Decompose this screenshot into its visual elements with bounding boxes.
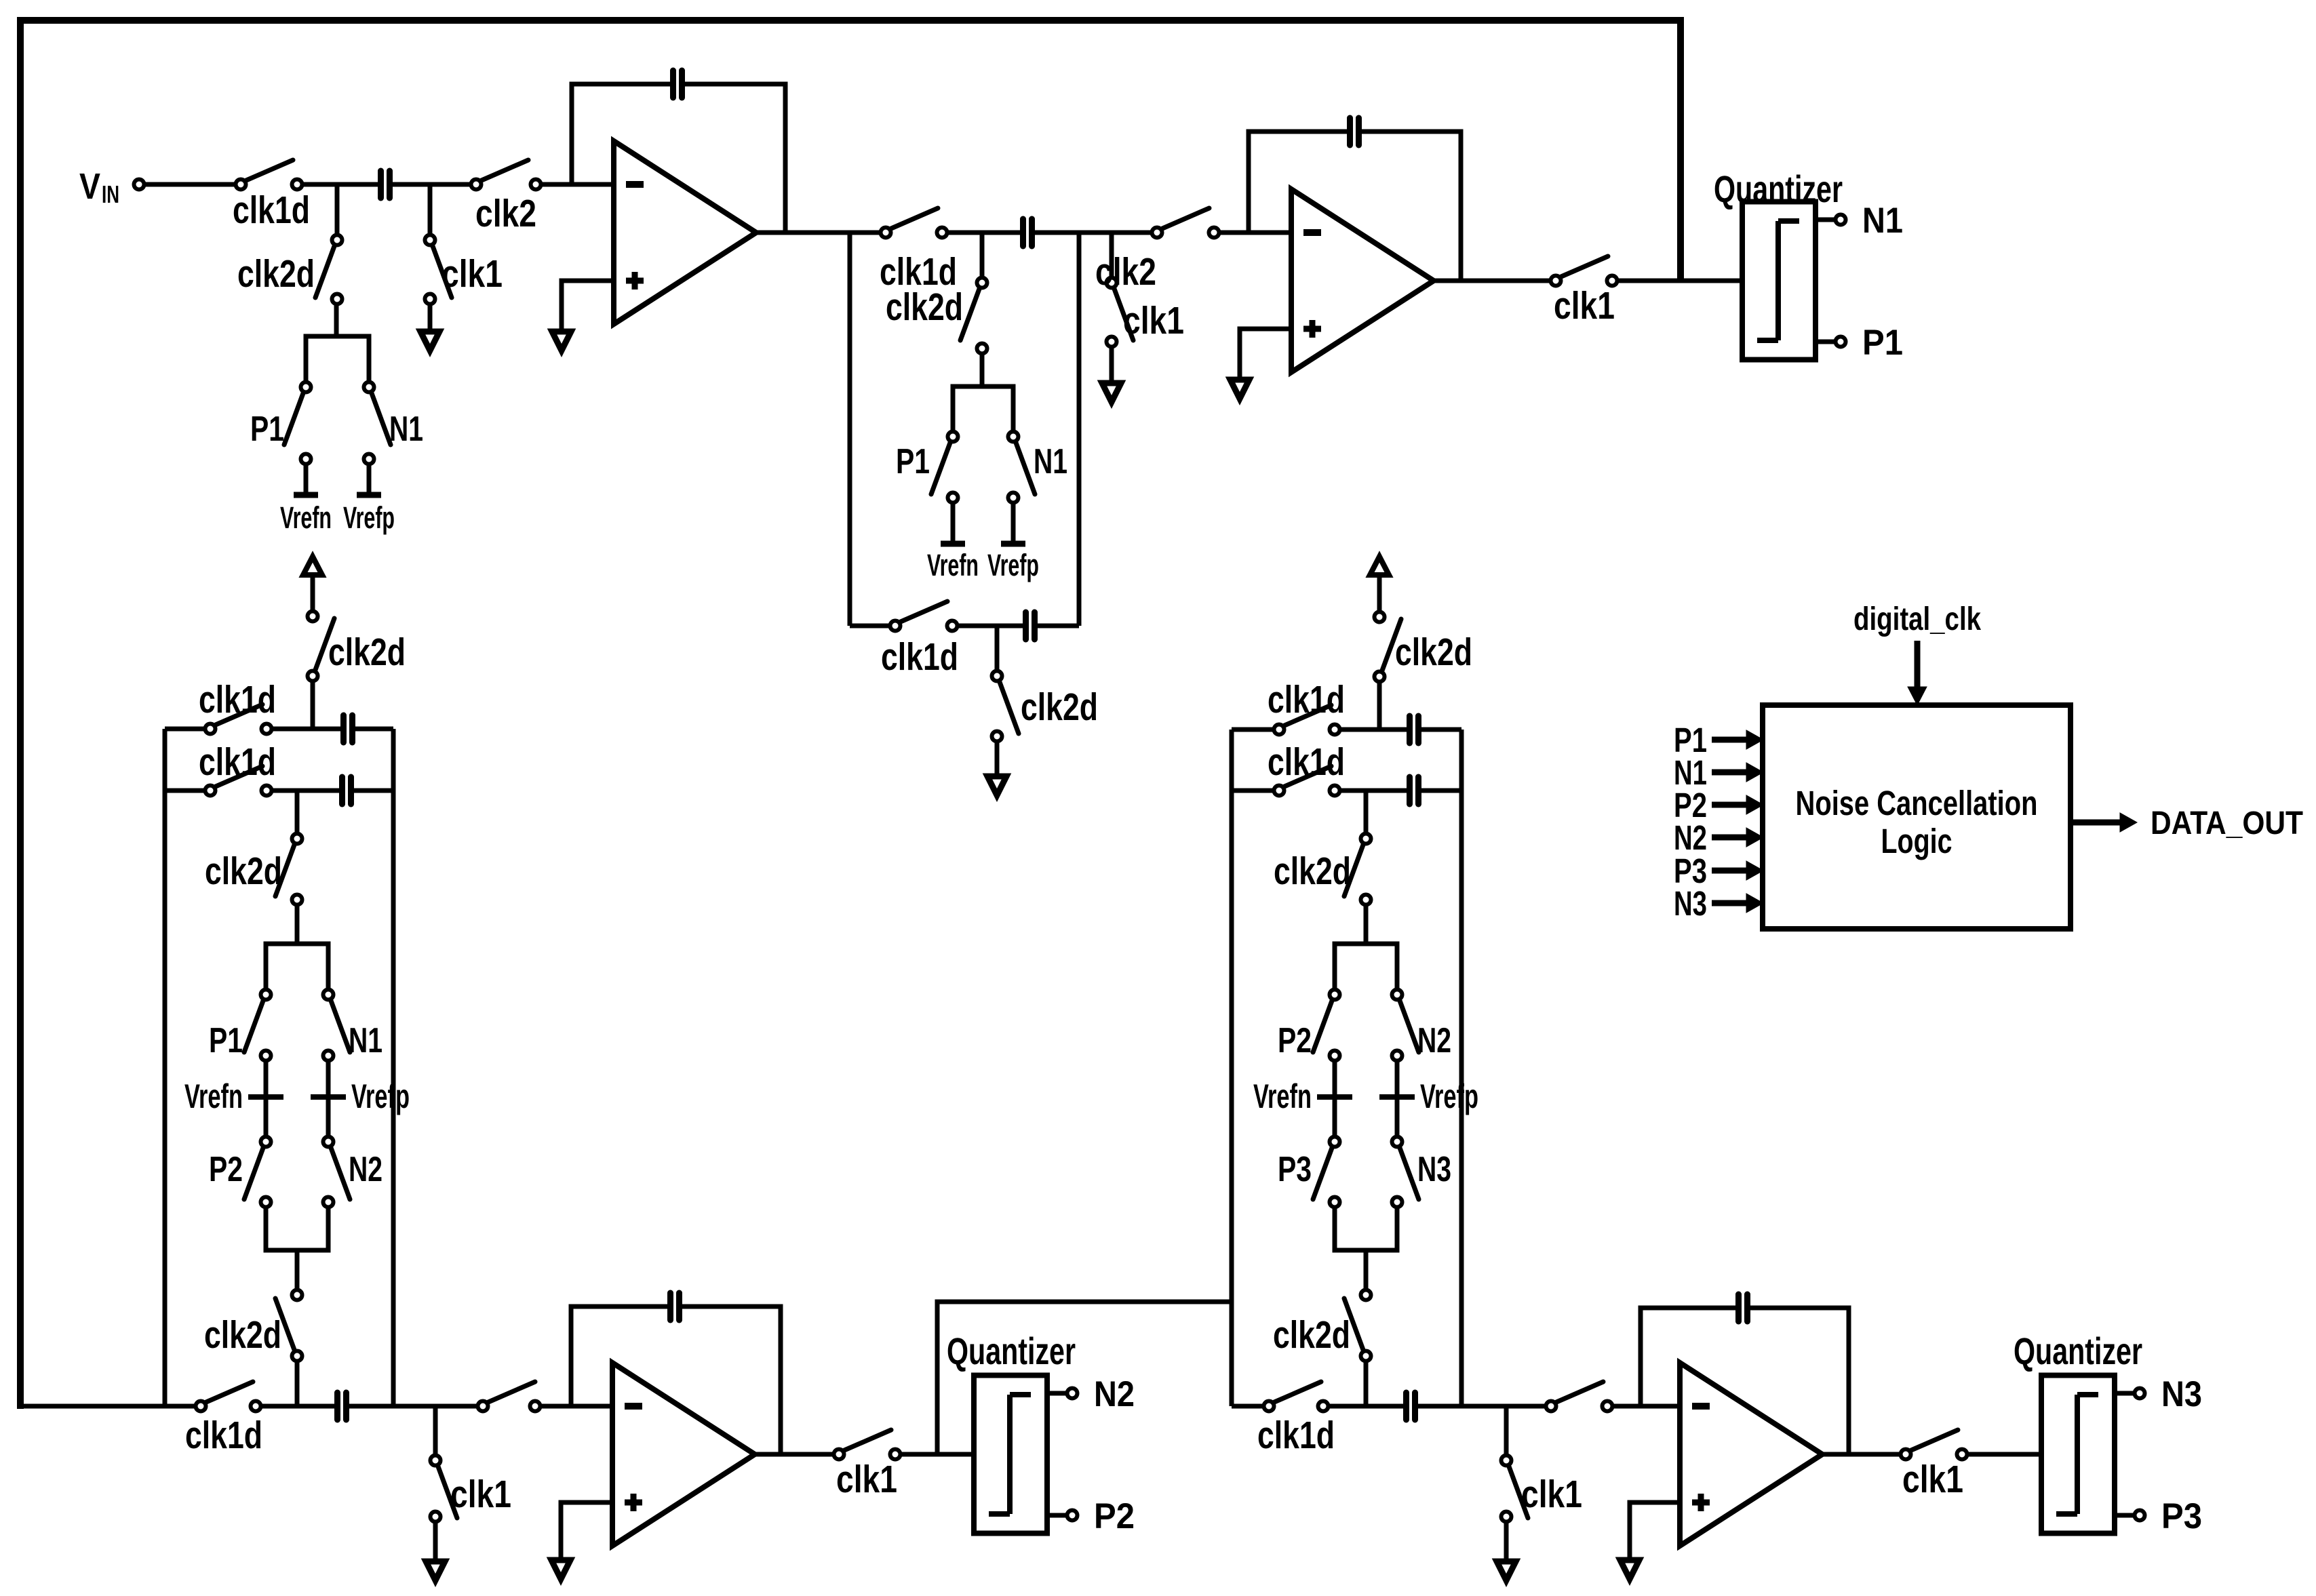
ground (stage2 clk1) xyxy=(1102,347,1121,402)
wire clk1 to quantizer3 xyxy=(1968,1452,2041,1457)
svg-text:IN: IN xyxy=(102,180,119,208)
wire clk1d to sampling cap xyxy=(302,182,378,187)
switch clk2d (stage1 DAC branch) xyxy=(237,235,342,304)
node N1 output xyxy=(1862,201,1903,241)
wire clk2 to op-amp U2 minus input xyxy=(1219,231,1291,235)
svg-text:clk1d: clk1d xyxy=(1268,678,1345,721)
svg-text:Quantizer: Quantizer xyxy=(1714,167,1843,210)
svg-text:clk1d: clk1d xyxy=(1268,740,1345,784)
switch P1 (stage1 DAC) xyxy=(250,382,311,464)
node N3 output xyxy=(2161,1374,2202,1414)
ground (stage4 clk1) xyxy=(1497,1522,1516,1580)
wire to op-amp U3 minus input xyxy=(541,1404,612,1409)
op-amp U1 (first integrator) xyxy=(614,141,756,324)
capacitor Cf4 (stage4 integrator) xyxy=(1739,1294,1748,1321)
quantizer Q3 xyxy=(2014,1330,2145,1534)
wire clk1d to stage4 cap xyxy=(1329,1404,1403,1409)
switch N1 (stage1 DAC) xyxy=(364,382,424,464)
capacitor Cf3 feedback wire xyxy=(571,1306,781,1454)
svg-text:P2: P2 xyxy=(1278,1021,1312,1060)
switch clk1 (stage1 cap reset) xyxy=(425,235,503,304)
node N3 input to NCL xyxy=(1674,884,1763,923)
svg-text:P3: P3 xyxy=(2161,1496,2202,1536)
svg-text:P2: P2 xyxy=(1094,1496,1135,1536)
wire clk2d to stage4 input wire xyxy=(1364,1361,1369,1406)
svg-text:clk1d: clk1d xyxy=(881,635,958,679)
capacitor C31 (stage3 box wire1) xyxy=(344,715,353,742)
switch P1 (stage3 ladder) xyxy=(209,990,271,1061)
switch clk1d (stage3 box wire1) xyxy=(199,678,276,734)
svg-text:clk1: clk1 xyxy=(1902,1458,1963,1501)
svg-text:Logic: Logic xyxy=(1881,822,1952,860)
svg-text:clk2: clk2 xyxy=(1095,250,1156,294)
wire clk2d up to arrow xyxy=(311,574,315,611)
switch clk2 (stage4 integrate, unlabeled) xyxy=(1546,1382,1613,1412)
node B2 junction clk1 ground branch xyxy=(1110,233,1114,278)
switch N3 (stage4 ladder) xyxy=(1392,1137,1452,1208)
wire clk2d up to arrow (stage4) xyxy=(1377,574,1382,612)
node VIN input terminal xyxy=(79,166,144,208)
switch clk2d (stage2 bottom reset) xyxy=(992,671,1099,742)
node P2 output xyxy=(1094,1496,1135,1536)
switch clk1 (stage4 cap reset) xyxy=(1502,1456,1583,1522)
op-amp U3 (third integrator) xyxy=(612,1363,755,1546)
switch clk2d (stage4 ladder to input) xyxy=(1273,1290,1371,1361)
node N2 output xyxy=(1094,1374,1135,1414)
svg-text:Vrefp: Vrefp xyxy=(343,500,395,535)
node Vrefn crossbar (stage4) xyxy=(1253,1077,1352,1115)
svg-text:clk2d: clk2d xyxy=(1273,1313,1350,1357)
wire1 to cap (stage4) xyxy=(1341,727,1407,732)
switch clk1 (quantizer3 sample) xyxy=(1901,1430,1967,1501)
svg-text:clk2d: clk2d xyxy=(1021,685,1098,729)
svg-text:clk2d: clk2d xyxy=(237,252,315,296)
node DATA_OUT output xyxy=(2070,805,2303,841)
switch N1 (stage3 ladder) xyxy=(323,990,383,1061)
switch clk1d (stage2 bottom) xyxy=(881,601,958,679)
svg-text:N2: N2 xyxy=(1094,1374,1135,1414)
svg-text:clk1: clk1 xyxy=(1554,284,1615,327)
svg-text:digital_clk: digital_clk xyxy=(1853,601,1981,637)
svg-text:P1: P1 xyxy=(1862,323,1903,363)
wire bottom cap to right rail xyxy=(1037,624,1079,629)
wire cap to clk2 (stage2) xyxy=(1035,231,1152,235)
switch clk1d (stage4 box wire2) xyxy=(1268,740,1345,796)
switch clk1d (stage1 input) xyxy=(233,160,310,232)
wire clk2 to op-amp U1 minus input xyxy=(541,182,614,187)
capacitor Cb2 (stage2 bottom) xyxy=(1026,612,1035,639)
wire stage3 box left rail xyxy=(163,729,168,1406)
wire2 cap to right rail xyxy=(354,789,393,793)
wire cap to clk2 xyxy=(392,182,471,187)
node Vrefn terminal (stage1) xyxy=(280,465,332,535)
svg-text:N3: N3 xyxy=(1417,1150,1451,1189)
wire wire2 junction down to clk2d xyxy=(295,791,300,834)
switch clk2d (stage2 DAC branch) xyxy=(886,278,987,354)
node digital_clk input xyxy=(1853,601,1981,705)
ground (U1 plus input) xyxy=(552,332,571,351)
svg-text:N1: N1 xyxy=(1034,442,1067,481)
wire U1 plus input to ground xyxy=(562,281,614,332)
quantizer Q2 xyxy=(947,1330,1078,1534)
node Vrefn terminal (stage2) xyxy=(927,504,979,582)
capacitor C41 (stage4 box wire1) xyxy=(1410,716,1419,743)
wire1 cap to right rail xyxy=(355,727,393,732)
wire stage3 input from left border xyxy=(20,1404,195,1409)
ground (U3 plus input) xyxy=(551,1560,570,1579)
svg-text:P1: P1 xyxy=(209,1021,243,1060)
wire clk1d to stage2 cap xyxy=(947,231,1020,235)
wire P1 to P2 with Vrefn tap xyxy=(264,1062,269,1136)
wire U4 output to clk1 xyxy=(1821,1452,1900,1457)
svg-text:clk1d: clk1d xyxy=(199,740,276,784)
svg-text:Quantizer: Quantizer xyxy=(2014,1330,2142,1372)
switch P2 (stage4 ladder) xyxy=(1278,990,1340,1061)
svg-text:Quantizer: Quantizer xyxy=(947,1330,1076,1372)
wire stage2 box right rail xyxy=(1077,233,1082,626)
wire stage4 box left rail xyxy=(1230,730,1234,1406)
svg-text:clk1: clk1 xyxy=(450,1473,511,1516)
svg-text:clk2: clk2 xyxy=(475,192,536,235)
svg-text:P1: P1 xyxy=(896,442,930,481)
capacitor Cf1 (stage1 integrator) xyxy=(673,71,682,98)
node Vrefp crossbar (stage4) xyxy=(1379,1077,1478,1115)
capacitor Cf2 (stage2 integrator) xyxy=(1350,118,1359,145)
wire stage4 box top wire1 xyxy=(1232,727,1274,732)
svg-text:clk2d: clk2d xyxy=(328,631,406,674)
svg-text:clk2d: clk2d xyxy=(205,850,282,893)
wire VIN to clk1d xyxy=(144,182,235,187)
svg-text:N1: N1 xyxy=(389,410,423,449)
svg-text:V: V xyxy=(79,166,100,207)
node Vrefn crossbar (stage3) xyxy=(184,1077,283,1115)
capacitor Cf2 feedback wire xyxy=(1249,132,1461,281)
capacitor Cs4 (stage4 sampling) xyxy=(1407,1393,1415,1420)
node arrow to stage1 DAC branch xyxy=(303,557,322,575)
wire ladder rejoin (stage3) xyxy=(266,1208,328,1290)
svg-text:DATA_OUT: DATA_OUT xyxy=(2151,805,2303,841)
switch clk1d (stage3 input) xyxy=(185,1382,262,1457)
svg-text:clk2d: clk2d xyxy=(1395,631,1472,674)
switch clk1 (quantizer2 sample) xyxy=(834,1430,901,1501)
svg-text:clk2d: clk2d xyxy=(1274,850,1351,893)
svg-text:clk1d: clk1d xyxy=(199,678,276,721)
wire ladder rejoin (stage4) xyxy=(1335,1208,1397,1290)
svg-text:clk1: clk1 xyxy=(441,252,503,296)
switch clk1d (stage2 input) xyxy=(880,208,957,294)
wire stage3 box wire2 xyxy=(165,789,205,793)
wire cap to clk2 (stage4) xyxy=(1418,1404,1546,1409)
switch clk2d (stage3 to stage1 connect) xyxy=(308,612,406,681)
svg-text:Vrefn: Vrefn xyxy=(184,1077,243,1115)
wire2 cap to right rail (stage4) xyxy=(1421,789,1461,793)
switch N1 (stage2 DAC) xyxy=(1008,432,1068,503)
node P3 input to NCL xyxy=(1674,852,1763,890)
wire bottom clk1d to cap xyxy=(958,624,1023,629)
svg-text:N3: N3 xyxy=(2161,1374,2202,1414)
capacitor Cs2 (stage2 sampling) xyxy=(1023,219,1032,246)
switch clk1 (quantizer1 sample) xyxy=(1551,256,1617,327)
wire1 cap to right rail (stage4) xyxy=(1421,727,1461,732)
svg-text:clk1: clk1 xyxy=(1123,299,1184,342)
wire N1 to N2 with Vrefp tap xyxy=(326,1062,331,1136)
op-amp U2 (second integrator) xyxy=(1291,189,1434,372)
quantizer Q1 xyxy=(1714,167,1846,360)
wire N2 to N3 with Vrefp tap (stage4) xyxy=(1395,1062,1400,1136)
switch P2 (stage3 ladder) xyxy=(209,1137,271,1208)
switch clk2d (stage4 DAC branch) xyxy=(1274,834,1371,905)
wire stage4 box right rail xyxy=(1459,730,1464,1406)
wire U1 output to stage2 clk1d xyxy=(755,231,880,235)
capacitor C32 (stage3 box wire2) xyxy=(342,777,351,804)
svg-text:N2: N2 xyxy=(1417,1021,1451,1060)
switch clk1 (stage2 cap reset) xyxy=(1107,278,1185,347)
svg-text:clk1d: clk1d xyxy=(233,188,310,232)
node B1 junction to clk1 ground branch xyxy=(428,184,433,235)
wire stage4 input from left rail xyxy=(1232,1404,1263,1409)
wire clk1 to quantizer1 xyxy=(1618,279,1742,283)
wire U2 plus input to ground xyxy=(1240,329,1291,380)
node B3 junction clk1 ground branch xyxy=(433,1406,438,1455)
svg-text:clk1: clk1 xyxy=(1521,1473,1582,1516)
node P1 input to NCL xyxy=(1674,721,1763,759)
svg-text:P3: P3 xyxy=(1278,1150,1312,1189)
node P2 input to NCL xyxy=(1674,786,1763,824)
svg-text:N1: N1 xyxy=(1862,201,1903,241)
switch clk2d (stage3 ladder to input) xyxy=(204,1290,302,1361)
switch N2 (stage3 ladder) xyxy=(323,1137,383,1208)
wire wire1 junction up to clk2d (stage4) xyxy=(1377,683,1382,730)
capacitor C42 (stage4 box wire2) xyxy=(1410,777,1419,804)
svg-text:N3: N3 xyxy=(1674,884,1707,923)
node B4 junction clk1 ground branch xyxy=(1504,1406,1509,1455)
capacitor Cf1 feedback wire xyxy=(572,84,785,233)
switch N2 (stage4 ladder) xyxy=(1392,990,1452,1061)
wire U4 plus input to ground xyxy=(1630,1502,1680,1560)
switch clk1d (stage4 input) xyxy=(1257,1382,1335,1457)
node N2 input to NCL xyxy=(1674,818,1763,857)
capacitor Cf3 (stage3 integrator) xyxy=(671,1293,680,1320)
wire clk2d to P1/N1 split (stage3) xyxy=(266,905,328,989)
node arrow to stage2 DAC branch xyxy=(1370,557,1389,575)
switch clk1 (stage3 cap reset) xyxy=(431,1456,512,1522)
node N1 input to NCL xyxy=(1674,753,1763,792)
wire clk2d to P1/N1 split (stage2) xyxy=(953,354,1013,431)
capacitor Cs3 (stage3 sampling) xyxy=(338,1393,347,1420)
switch clk2 (stage1 integrate) xyxy=(471,160,541,235)
switch clk2d (stage3 DAC branch) xyxy=(205,834,302,905)
wire stage4 box wire2 xyxy=(1232,789,1274,793)
wire clk1 to quantizer2 xyxy=(901,1452,974,1457)
ground (stage1 clk1) xyxy=(420,304,439,351)
wire U3 output to clk1 xyxy=(753,1452,833,1457)
switch P3 (stage4 ladder) xyxy=(1278,1137,1340,1208)
switch clk2d (stage4 to stage2 connect) xyxy=(1375,612,1473,682)
wire P2 to P3 with Vrefn tap (stage4) xyxy=(1333,1062,1337,1136)
wire cap to unlabeled clk2 switch xyxy=(349,1404,477,1409)
wire stage3 box top wire1 xyxy=(165,727,205,732)
wire feedback net from quantizer-1 input node to stage-3 input (top and left border) xyxy=(20,20,1681,1409)
block Noise Cancellation Logic xyxy=(1763,705,2070,929)
switch clk1d (stage3 box wire2) xyxy=(199,740,276,796)
svg-text:Vrefp: Vrefp xyxy=(351,1077,410,1115)
svg-text:clk1: clk1 xyxy=(836,1458,897,1501)
switch clk1d (stage4 box wire1) xyxy=(1268,678,1345,735)
node P3 output xyxy=(2161,1496,2202,1536)
wire clk2d to stage3 input wire xyxy=(295,1361,300,1406)
svg-text:Vrefn: Vrefn xyxy=(1253,1077,1312,1115)
wire junction to bottom clk2d xyxy=(995,626,1000,671)
svg-text:clk2d: clk2d xyxy=(204,1313,281,1357)
svg-text:clk2d: clk2d xyxy=(886,285,963,329)
svg-text:clk1d: clk1d xyxy=(185,1414,262,1457)
wire stage2 box left rail xyxy=(848,233,852,626)
wire2 to cap xyxy=(272,789,339,793)
ground (U2 plus input) xyxy=(1230,380,1249,399)
wire stage2 box bottom to clk1d xyxy=(850,624,890,629)
node Vrefp crossbar (stage3) xyxy=(311,1077,410,1115)
wire to op-amp U4 minus input xyxy=(1613,1404,1680,1409)
ground (stage2 bottom clk2d) xyxy=(987,742,1006,795)
wire wire1 junction up to clk2d xyxy=(311,682,315,729)
wire clk2d to P1/N1 split xyxy=(306,304,369,382)
svg-text:Vrefn: Vrefn xyxy=(927,548,979,582)
node A1 junction to clk2d branch xyxy=(335,184,340,235)
wire U3 plus input to ground xyxy=(561,1502,612,1560)
svg-text:Noise Cancellation: Noise Cancellation xyxy=(1796,784,2038,822)
switch clk2 (stage3 integrate, unlabeled) xyxy=(478,1382,541,1412)
svg-text:clk1d: clk1d xyxy=(1257,1414,1335,1457)
node A2 junction to clk2d branch xyxy=(980,233,985,278)
switch P1 (stage2 DAC) xyxy=(896,432,958,503)
capacitor Cf4 feedback wire xyxy=(1641,1308,1849,1454)
ground (stage3 clk1) xyxy=(426,1522,445,1580)
svg-text:P1: P1 xyxy=(250,410,284,449)
wire2 to cap (stage4) xyxy=(1341,789,1407,793)
wire wire2 junction down to clk2d (stage4) xyxy=(1364,791,1369,834)
node junction quantizer2 input to stage4 xyxy=(937,1302,1232,1454)
node Vrefp terminal (stage2) xyxy=(987,504,1039,582)
wire1 to cap xyxy=(272,727,340,732)
ground (U4 plus input) xyxy=(1620,1560,1639,1579)
wire clk1d to stage3 cap xyxy=(262,1404,334,1409)
node Vrefp terminal (stage1) xyxy=(343,465,395,535)
op-amp U4 (fourth integrator) xyxy=(1680,1363,1822,1546)
svg-text:N2: N2 xyxy=(349,1150,382,1189)
svg-text:Vrefp: Vrefp xyxy=(987,548,1039,582)
svg-text:Vrefp: Vrefp xyxy=(1420,1077,1478,1115)
capacitor Cs1 (stage1 sampling) xyxy=(381,171,390,198)
wire clk2d to P2/N2 split (stage4) xyxy=(1335,905,1397,989)
switch clk2 (stage2 integrate) xyxy=(1095,208,1219,294)
svg-text:N1: N1 xyxy=(349,1021,382,1060)
svg-text:P2: P2 xyxy=(209,1150,243,1189)
wire stage3 box right rail xyxy=(391,729,396,1406)
wire U2 output to clk1 xyxy=(1433,279,1550,283)
node P1 output xyxy=(1862,323,1903,363)
svg-text:Vrefn: Vrefn xyxy=(280,500,332,535)
